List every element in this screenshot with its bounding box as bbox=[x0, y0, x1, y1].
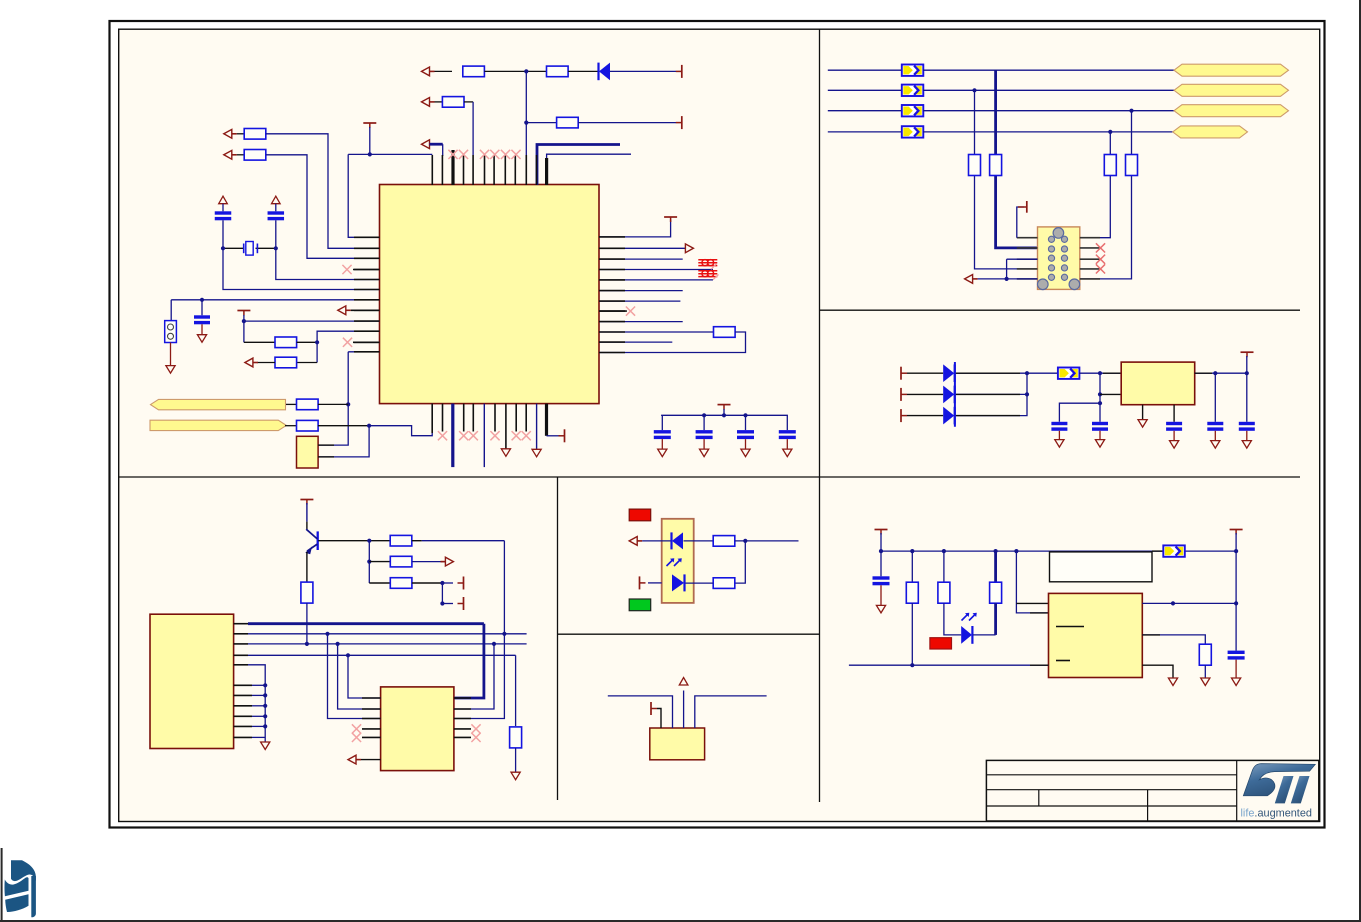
svg-text:life.augmented: life.augmented bbox=[1241, 807, 1312, 819]
